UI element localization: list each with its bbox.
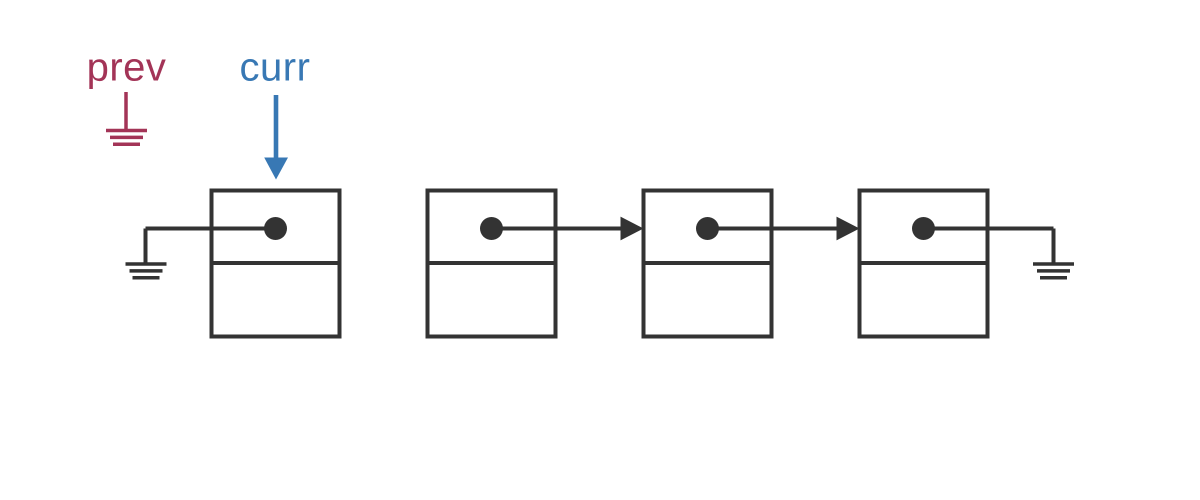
arrow node3 -> node4 bbox=[708, 217, 860, 241]
ground (node1 null, black) bbox=[126, 264, 167, 278]
wire node1 next -> left bbox=[146, 227, 276, 231]
ground (prev null, maroon) bbox=[106, 92, 147, 144]
wire down to ground bbox=[1052, 229, 1056, 263]
node 4 pointer dot bbox=[912, 217, 935, 240]
ground (node4 null, black) bbox=[1033, 264, 1074, 278]
node 3 box bbox=[644, 191, 772, 337]
arrow node2 -> node3 bbox=[492, 217, 644, 241]
node 1 box bbox=[212, 191, 340, 337]
svg-text:curr: curr bbox=[240, 46, 311, 90]
svg-text:prev: prev bbox=[87, 46, 167, 90]
arrow curr -> node 1 bbox=[264, 95, 288, 180]
node 1 pointer dot bbox=[264, 217, 287, 240]
node 2 pointer dot bbox=[480, 217, 503, 240]
wire node4 next -> right bbox=[924, 227, 1054, 231]
wire down to ground bbox=[144, 229, 148, 263]
node 3 pointer dot bbox=[696, 217, 719, 240]
node 4 box bbox=[860, 191, 988, 337]
node 2 box bbox=[428, 191, 556, 337]
